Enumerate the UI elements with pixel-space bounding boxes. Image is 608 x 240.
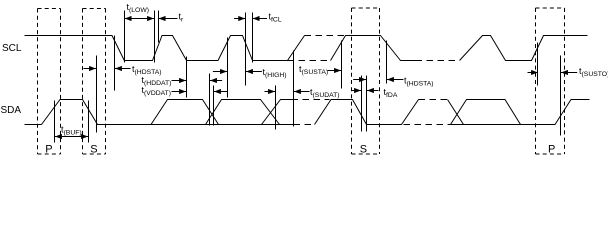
svg-text:P: P [548, 144, 555, 156]
svg-text:tfCL: tfCL [269, 12, 282, 24]
svg-text:S: S [90, 144, 97, 156]
svg-text:t(HDDAT): t(HDDAT) [142, 75, 172, 87]
svg-text:tr: tr [179, 12, 185, 24]
svg-text:t(HIGH): t(HIGH) [263, 67, 287, 79]
svg-text:t(LOW): t(LOW) [127, 2, 150, 14]
svg-text:SDA: SDA [1, 105, 22, 116]
svg-text:t(SUSTO): t(SUSTO) [579, 66, 608, 78]
svg-text:t(HDSTA): t(HDSTA) [132, 64, 162, 76]
svg-text:P: P [45, 144, 52, 156]
svg-text:t(SUDAT): t(SUDAT) [310, 87, 340, 99]
svg-text:t(HDSTA): t(HDSTA) [404, 76, 434, 88]
svg-text:S: S [360, 144, 367, 156]
svg-text:t(SUSTA): t(SUSTA) [299, 64, 328, 76]
svg-text:tfDA: tfDA [384, 87, 398, 99]
svg-text:SCL: SCL [2, 43, 22, 54]
svg-text:t(BUF): t(BUF) [61, 125, 82, 137]
